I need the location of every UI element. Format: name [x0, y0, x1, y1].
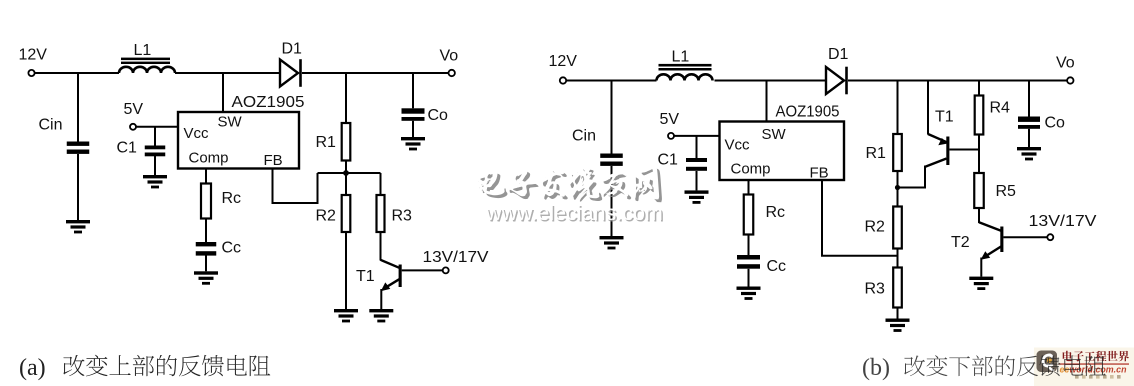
wire R3 top (a)	[380, 173, 382, 195]
wire Co tap (b)	[1028, 81, 1030, 117]
logo 电子工程世界 eeworld.com.cn	[1034, 348, 1134, 386]
svg-text:R3: R3	[392, 208, 413, 225]
transistor T1 (a)	[381, 260, 443, 309]
transistor T2 (b)	[979, 222, 1047, 276]
wire FB pin feedback (a)	[273, 169, 318, 204]
label T1 (a)	[356, 268, 375, 285]
label R4 (b)	[990, 100, 1011, 117]
label Co (b)	[1045, 115, 1066, 132]
wire R3 to T1 collector (a)	[380, 232, 382, 261]
wire R2 top (a)	[345, 173, 347, 195]
inductor L1 (a)	[119, 58, 175, 73]
node Cin tap (b)	[611, 81, 613, 154]
resistor R4 (b)	[975, 96, 984, 135]
wire R1 top (b)	[897, 81, 899, 135]
label Cc (b)	[767, 258, 787, 275]
resistor R3 (b)	[893, 268, 902, 308]
ground Cc (b)	[737, 287, 761, 300]
svg-text:Vcc: Vcc	[725, 137, 751, 154]
svg-text:13V/17V: 13V/17V	[423, 249, 489, 266]
resistor R5 (b)	[974, 173, 984, 208]
label 13V/17V (a)	[423, 249, 489, 266]
capacitor Cin (b)	[600, 154, 623, 166]
watermark www.elecians.com	[485, 201, 664, 227]
capacitor Cc (a)	[196, 242, 217, 256]
pin SW label (a)	[218, 114, 243, 131]
wire R3 to ground (b)	[897, 308, 899, 319]
ground C1 (a)	[143, 175, 167, 188]
svg-text:R2: R2	[316, 208, 337, 225]
label R2 (b)	[865, 219, 886, 236]
pin FB label (b)	[810, 165, 829, 182]
svg-text:Rc: Rc	[766, 204, 786, 221]
svg-text:D1: D1	[828, 46, 849, 63]
svg-text:L1: L1	[672, 49, 690, 66]
label Cc (a)	[222, 240, 242, 257]
wire SW pin (a)	[222, 73, 224, 113]
svg-text:R5: R5	[996, 183, 1017, 200]
svg-text:Cin: Cin	[39, 117, 63, 134]
label 12V (a)	[19, 47, 48, 64]
pin FB label (a)	[264, 152, 283, 169]
wire Co tap (a)	[412, 73, 414, 108]
wire C1 tap (a)	[154, 127, 156, 146]
wire L1 to D1 (a)	[175, 72, 280, 74]
svg-text:T2: T2	[951, 234, 970, 251]
wire D1 to Vo (a)	[302, 72, 449, 74]
wire Cin to ground (b)	[611, 166, 613, 236]
terminal 12V input (b)	[560, 77, 566, 83]
label R1 (a)	[316, 134, 337, 151]
label C1 (a)	[117, 140, 138, 157]
wire T1 collector link (b)	[898, 166, 926, 188]
label T2 (b)	[951, 234, 970, 251]
svg-text:Comp: Comp	[731, 161, 771, 178]
svg-text:R3: R3	[865, 281, 886, 298]
wire feedback node (a)	[318, 172, 381, 174]
label D1 (b)	[828, 46, 849, 63]
svg-text:(a): (a)	[19, 355, 46, 381]
resistor Rc (a)	[201, 184, 211, 219]
pin Vcc label (a)	[184, 125, 210, 142]
svg-text:T1: T1	[356, 268, 375, 285]
wire R2 to ground (a)	[345, 232, 347, 309]
svg-text:12V: 12V	[19, 47, 48, 64]
wire 5V to Vcc (a)	[136, 126, 178, 128]
ground Cc (a)	[194, 271, 218, 284]
label Cin (a)	[39, 117, 63, 134]
svg-text:Cc: Cc	[222, 240, 242, 257]
capacitor Cin (a)	[67, 142, 90, 154]
label R5 (b)	[996, 183, 1017, 200]
caption (a) 改变上部的反馈电阻	[19, 355, 270, 381]
wire D1 to Vo (b)	[848, 80, 1068, 82]
caption (b) 改变下部的反馈电阻	[862, 355, 1106, 381]
wire C1 to ground (a)	[154, 156, 156, 175]
wire Co to ground (a)	[412, 121, 414, 137]
wire T1 emitter from rail (b)	[927, 81, 929, 135]
wire Comp pin (a)	[205, 169, 207, 184]
terminal 12V input (a)	[28, 70, 34, 76]
svg-text:13V/17V: 13V/17V	[1029, 213, 1097, 230]
svg-text:AOZ1905: AOZ1905	[776, 104, 840, 121]
node Cin tap (a)	[77, 73, 79, 142]
wire Cc to ground (b)	[748, 269, 750, 287]
label Co (a)	[428, 107, 449, 124]
pin Comp label (a)	[189, 150, 229, 167]
ground R3 (b)	[886, 319, 910, 332]
wire C1 tap (b)	[696, 136, 698, 158]
svg-text:R2: R2	[865, 219, 886, 236]
resistor R3 (a)	[377, 195, 385, 232]
node junction dot T1 collector (b)	[895, 185, 900, 190]
label 12V (b)	[549, 53, 578, 70]
resistor R1 (a)	[342, 123, 351, 161]
svg-text:Co: Co	[428, 107, 449, 124]
svg-text:D1: D1	[282, 41, 303, 58]
inductor L1 (b)	[657, 64, 713, 81]
label 5V (a)	[124, 101, 144, 118]
ground C1 (b)	[685, 190, 709, 203]
label T1 (b)	[935, 109, 954, 126]
wire Rc to Cc (a)	[205, 219, 207, 243]
label Vo (b)	[1056, 55, 1075, 72]
terminal Vo (a)	[449, 70, 455, 76]
ground Co (a)	[401, 137, 425, 150]
label L1 (a)	[134, 42, 152, 59]
diode D1 (a)	[280, 59, 301, 87]
wire R4 to R5 (b)	[978, 135, 980, 174]
wire R1 bottom (a)	[345, 161, 347, 174]
resistor Rc (b)	[744, 195, 754, 235]
wire R4 top (b)	[978, 81, 980, 96]
svg-text:L1: L1	[134, 42, 152, 59]
diode D1 (b)	[826, 67, 847, 95]
wire 12V to L1 (a)	[35, 72, 120, 74]
resistor R2 (a)	[342, 195, 351, 232]
wire C1 to ground (b)	[696, 171, 698, 190]
pin Comp label (b)	[731, 161, 771, 178]
label Rc (b)	[766, 204, 786, 221]
capacitor Cc (b)	[737, 255, 760, 269]
svg-text:eeworld.com.cn: eeworld.com.cn	[1060, 365, 1127, 376]
watermark 电子发烧友网	[476, 166, 662, 203]
resistor R2 (b)	[893, 207, 902, 249]
terminal 13V/17V (a)	[443, 267, 449, 273]
label 13V/17V (b)	[1029, 213, 1097, 230]
pin Vcc label (b)	[725, 137, 751, 154]
wire FB pin feedback (b)	[822, 180, 898, 256]
pin SW label (b)	[762, 126, 787, 143]
wire Cin to ground (a)	[77, 154, 79, 220]
capacitor C1 (a)	[145, 146, 166, 157]
terminal 5V (a)	[130, 124, 136, 130]
wire Comp pin (b)	[748, 180, 750, 195]
wire 12V to L1 (b)	[566, 80, 657, 82]
svg-text:FB: FB	[264, 152, 283, 169]
svg-text:www.elecians.com: www.elecians.com	[485, 201, 663, 225]
capacitor Co (b)	[1018, 117, 1040, 129]
op-amp U1 AOZ1905 box (a)	[178, 112, 299, 169]
svg-text:FB: FB	[810, 165, 829, 182]
terminal 13V/17V (b)	[1047, 234, 1053, 240]
ground Cin (b)	[600, 236, 624, 249]
label D1 (a)	[282, 41, 303, 58]
svg-text:Cin: Cin	[572, 128, 596, 145]
op-amp U1 AOZ1905 box (b)	[720, 122, 845, 181]
label R2 (a)	[316, 208, 337, 225]
label 5V (b)	[660, 111, 680, 128]
ground T2 emitter (b)	[969, 277, 993, 290]
label R3 (b)	[865, 281, 886, 298]
wire SW pin (b)	[766, 81, 768, 123]
wire 5V to Vcc (b)	[674, 135, 720, 137]
svg-text:Rc: Rc	[222, 190, 242, 207]
label C1 (b)	[658, 152, 679, 169]
svg-text:Vcc: Vcc	[184, 125, 210, 142]
ground R2 (a)	[334, 309, 358, 322]
svg-text:C1: C1	[658, 152, 679, 169]
svg-text:R4: R4	[990, 100, 1011, 117]
capacitor Co (a)	[402, 108, 425, 121]
terminal Vo (b)	[1067, 77, 1073, 83]
svg-text:T1: T1	[935, 109, 954, 126]
wire R2 to R3 (b)	[897, 249, 899, 268]
svg-text:Comp: Comp	[189, 150, 229, 167]
label R3 (a)	[392, 208, 413, 225]
svg-text:5V: 5V	[660, 111, 680, 128]
label AOZ1905 (b)	[776, 104, 840, 121]
label Vo (a)	[440, 48, 459, 65]
svg-text:12V: 12V	[549, 53, 578, 70]
svg-text:C1: C1	[117, 140, 138, 157]
node junction dot (a)	[343, 170, 349, 176]
svg-text:Co: Co	[1045, 115, 1066, 132]
wire Co to ground (b)	[1028, 129, 1030, 147]
wire R1 to R2 (b)	[897, 171, 899, 207]
svg-text:SW: SW	[218, 114, 243, 131]
capacitor C1 (b)	[686, 158, 707, 171]
svg-text:5V: 5V	[124, 101, 144, 118]
svg-text:R1: R1	[316, 134, 337, 151]
svg-text:(b): (b)	[862, 355, 890, 381]
ground Cin (a)	[66, 220, 90, 233]
transistor T1 (b)	[925, 134, 979, 167]
wire Cc to ground (a)	[205, 256, 207, 272]
wire L1 to D1 (b)	[715, 80, 827, 82]
label Rc (a)	[222, 190, 242, 207]
ground Co (b)	[1017, 147, 1041, 160]
svg-text:SW: SW	[762, 126, 787, 143]
svg-text:R1: R1	[866, 145, 887, 162]
wire Rc to Cc (b)	[748, 235, 750, 256]
svg-text:AOZ1905: AOZ1905	[232, 94, 305, 111]
svg-text:Cc: Cc	[767, 258, 787, 275]
terminal 5V (b)	[668, 133, 674, 139]
svg-text:Vo: Vo	[440, 48, 459, 65]
label R1 (b)	[866, 145, 887, 162]
wire R1 top (a)	[345, 73, 347, 123]
label L1 (b)	[672, 49, 690, 66]
svg-text:Vo: Vo	[1056, 55, 1075, 72]
label Cin (b)	[572, 128, 596, 145]
resistor R1 (b)	[893, 134, 902, 171]
label AOZ1905 (a)	[232, 94, 305, 111]
ground T1 emitter (a)	[369, 309, 393, 322]
wire R5 to T2 (b)	[978, 208, 980, 223]
